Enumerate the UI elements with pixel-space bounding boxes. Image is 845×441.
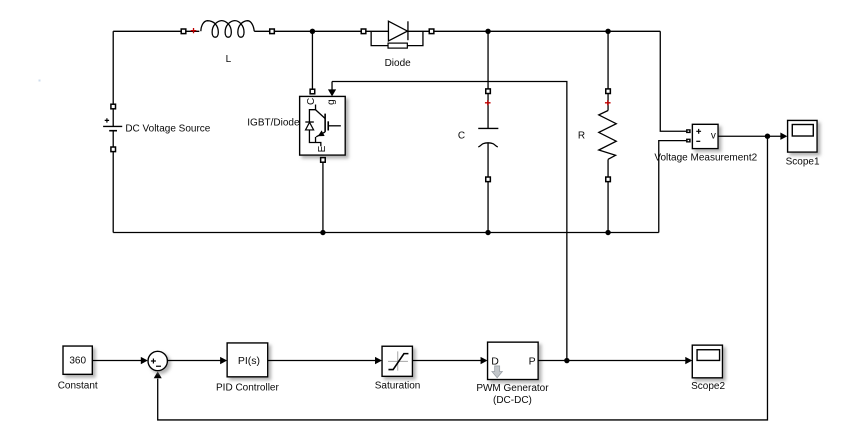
red plus marker resistor (605, 100, 611, 105)
capacitor plates (478, 128, 498, 147)
port DC Voltage Source bottom (111, 147, 116, 152)
wire Constant to sum (92, 360, 141, 362)
inductor L coil (201, 21, 254, 38)
wire sum to PID Controller (168, 360, 221, 362)
DC Voltage Source battery symbol (103, 118, 122, 131)
port capacitor top (486, 89, 491, 94)
wire gate drive from PWM (332, 82, 567, 361)
wire PID Controller to Saturation (268, 360, 376, 362)
IGBT/Diode block (300, 96, 346, 155)
junction PWM output (564, 358, 569, 363)
svg-text:R: R (578, 130, 585, 141)
resistor zigzag (599, 111, 617, 160)
wire PWM Generator to Scope2 (538, 360, 686, 362)
svg-text:Scope2: Scope2 (691, 381, 725, 392)
svg-text:DC Voltage Source: DC Voltage Source (125, 123, 210, 134)
port IGBT emitter (321, 158, 326, 163)
diode snubber resistor (388, 43, 407, 48)
diode cathode bar (407, 21, 409, 40)
wire bottom bus (113, 232, 659, 234)
svg-text:g: g (326, 99, 337, 105)
arrowhead PWM input (481, 357, 488, 364)
port resistor top (606, 89, 611, 94)
svg-text:Scope1: Scope1 (786, 156, 820, 167)
arrowhead Scope2 input (685, 357, 692, 364)
junction bottom bus capacitor (485, 230, 490, 235)
junction top bus to IGBT collector (310, 29, 315, 34)
wire Voltage Measurement2 output to Scope1 (718, 135, 786, 137)
PID Controller block (227, 343, 268, 377)
port diode left (361, 29, 366, 34)
wire resistor branch (607, 31, 609, 232)
svg-text:C: C (306, 98, 317, 105)
svg-text:PWM Generator: PWM Generator (476, 383, 549, 394)
port resistor bottom (606, 177, 611, 182)
wire Saturation to PWM Generator (412, 360, 481, 362)
PWM Generator block (488, 342, 539, 379)
port DC Voltage Source top (111, 104, 116, 109)
arrowhead Scope1 input (780, 133, 787, 140)
svg-text:C: C (458, 130, 465, 141)
port diode right (429, 29, 434, 34)
svg-text:Diode: Diode (385, 58, 412, 69)
wire capacitor branch (487, 31, 489, 232)
port Voltage Measurement2 minus (686, 139, 691, 143)
port inductor left (181, 29, 186, 34)
svg-text:IGBT/Diode: IGBT/Diode (247, 118, 300, 129)
junction bottom bus IGBT emitter (320, 230, 325, 235)
port capacitor bottom (486, 177, 491, 182)
wire to Voltage Measurement2 minus input (659, 141, 686, 233)
arrowhead gate input (328, 89, 336, 96)
svg-text:Saturation: Saturation (375, 380, 421, 391)
arrowhead PID input (220, 357, 227, 364)
diode triangle (388, 21, 407, 41)
diode snubber loop (371, 31, 423, 45)
svg-text:PID Controller: PID Controller (216, 382, 279, 393)
svg-text:P: P (529, 355, 536, 367)
junction top bus resistor (605, 29, 610, 34)
svg-text:Constant: Constant (58, 380, 98, 391)
arrowhead Saturation input (375, 357, 382, 364)
Scope1 block (788, 120, 818, 152)
Voltage Measurement2 block (692, 124, 718, 148)
wire IGBT emitter stub (322, 162, 324, 233)
port inductor right (270, 29, 275, 34)
wire top bus (113, 30, 660, 32)
svg-text:E: E (317, 145, 328, 152)
arrowhead sum bottom input (154, 371, 162, 378)
wire left branch (112, 31, 114, 232)
junction Scope1 feedback (765, 134, 770, 139)
svg-text:L: L (226, 54, 232, 65)
red plus marker capacitor (485, 100, 491, 105)
Saturation block (382, 346, 412, 376)
svg-text:v: v (711, 131, 716, 142)
junction top bus capacitor (485, 29, 490, 34)
arrowhead sum left input (141, 357, 148, 364)
svg-text:Voltage Measurement2: Voltage Measurement2 (654, 152, 757, 163)
port IGBT collector (310, 89, 315, 94)
sum junction circle (148, 351, 167, 370)
wire feedback to sum (158, 136, 768, 420)
Constant block 360 (63, 346, 92, 374)
Scope2 block (692, 345, 722, 378)
junction bottom bus resistor (605, 230, 610, 235)
wire to Voltage Measurement2 plus input (660, 31, 686, 131)
red plus marker inductor (191, 28, 197, 33)
svg-text:360: 360 (69, 356, 86, 367)
port Voltage Measurement2 plus (686, 129, 691, 133)
svg-text:(DC-DC): (DC-DC) (493, 395, 532, 406)
svg-text:PI(s): PI(s) (238, 355, 260, 367)
grid dot (39, 80, 41, 82)
wire IGBT collector stub (311, 31, 313, 89)
